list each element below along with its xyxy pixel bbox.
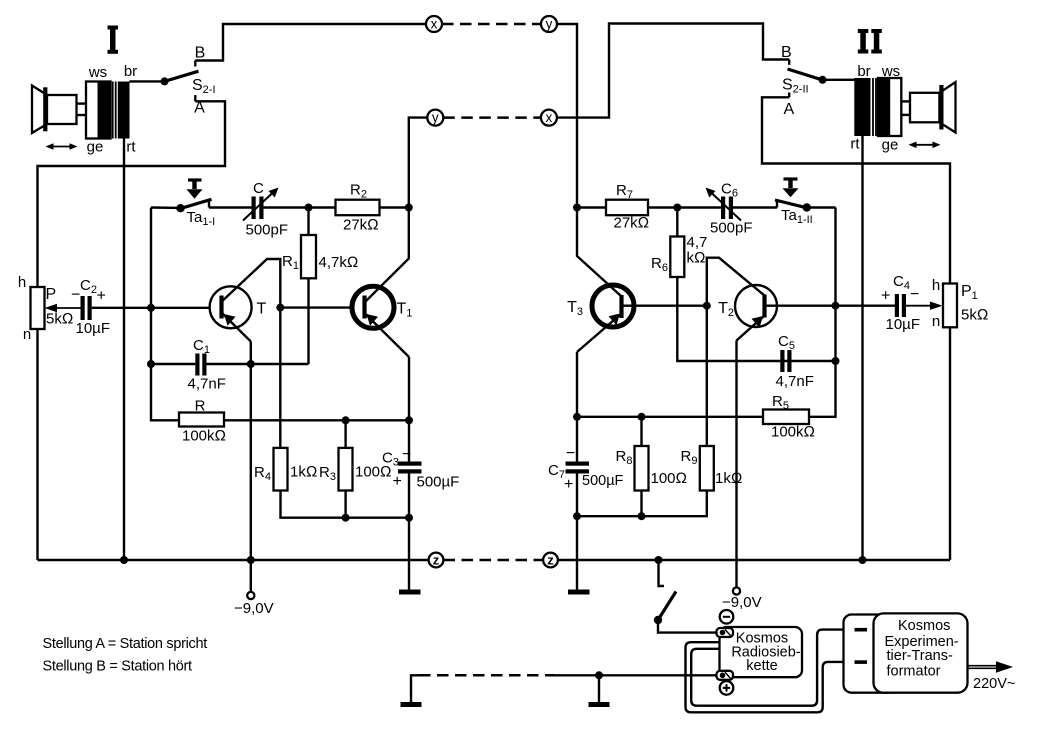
svg-text:220V~: 220V~ — [973, 676, 1015, 692]
svg-text:−: − — [402, 446, 411, 463]
svg-text:4,7nF: 4,7nF — [188, 376, 226, 393]
svg-text:br: br — [124, 63, 137, 80]
svg-text:rt: rt — [850, 136, 860, 153]
svg-text:500pF: 500pF — [246, 222, 289, 239]
svg-text:10µF: 10µF — [76, 320, 111, 337]
svg-text:n: n — [932, 313, 940, 330]
svg-text:1kΩ: 1kΩ — [290, 464, 317, 481]
svg-text:27kΩ: 27kΩ — [343, 217, 379, 234]
svg-text:Stellung B = Station hört: Stellung B = Station hört — [43, 659, 193, 675]
svg-text:n: n — [23, 326, 31, 343]
svg-text:27kΩ: 27kΩ — [614, 215, 650, 232]
svg-text:formator: formator — [887, 664, 941, 680]
svg-text:−: − — [566, 445, 575, 462]
svg-text:4,7: 4,7 — [687, 234, 708, 251]
svg-text:R: R — [195, 398, 206, 415]
svg-text:+: + — [393, 473, 402, 490]
svg-text:y: y — [546, 17, 553, 32]
svg-text:T: T — [257, 301, 267, 318]
svg-text:4,7nF: 4,7nF — [776, 373, 814, 390]
svg-text:z: z — [433, 553, 440, 568]
svg-text:−: − — [910, 286, 919, 303]
svg-text:ws: ws — [88, 64, 107, 81]
svg-text:C: C — [253, 180, 264, 197]
svg-text:+: + — [564, 476, 573, 493]
svg-text:100kΩ: 100kΩ — [182, 428, 226, 445]
svg-text:−9,0V: −9,0V — [722, 594, 762, 611]
svg-text:Kosmos: Kosmos — [898, 618, 950, 634]
svg-text:B: B — [195, 45, 206, 62]
svg-text:B: B — [781, 44, 792, 61]
svg-text:500pF: 500pF — [710, 220, 753, 237]
svg-text:h: h — [18, 274, 26, 291]
svg-text:ge: ge — [87, 139, 104, 156]
svg-text:P: P — [46, 286, 57, 303]
svg-text:500µF: 500µF — [417, 474, 460, 491]
svg-text:+: + — [881, 288, 890, 305]
svg-text:100kΩ: 100kΩ — [771, 424, 815, 441]
svg-text:x: x — [431, 17, 438, 32]
svg-text:rt: rt — [126, 139, 136, 156]
svg-text:5kΩ: 5kΩ — [961, 307, 988, 324]
svg-text:br: br — [857, 63, 870, 80]
svg-text:y: y — [432, 110, 439, 125]
svg-text:100Ω: 100Ω — [651, 470, 688, 487]
svg-text:10µF: 10µF — [886, 316, 921, 333]
svg-text:z: z — [547, 553, 554, 568]
svg-text:Stellung A = Station spricht: Stellung A = Station spricht — [43, 636, 208, 652]
svg-text:kette: kette — [746, 658, 777, 674]
svg-text:ge: ge — [882, 137, 899, 154]
svg-text:500µF: 500µF — [582, 473, 624, 489]
svg-text:5kΩ: 5kΩ — [46, 311, 73, 328]
svg-text:A: A — [784, 101, 795, 118]
svg-text:+: + — [97, 288, 106, 305]
svg-text:h: h — [932, 277, 940, 294]
svg-text:−9,0V: −9,0V — [234, 600, 274, 617]
svg-text:4,7kΩ: 4,7kΩ — [319, 254, 359, 271]
svg-text:tier-Trans-: tier-Trans- — [887, 648, 953, 664]
svg-text:ws: ws — [881, 63, 900, 80]
svg-text:−: − — [71, 287, 80, 304]
svg-text:1kΩ: 1kΩ — [715, 470, 742, 487]
svg-text:x: x — [546, 110, 553, 125]
svg-text:kΩ: kΩ — [687, 250, 706, 267]
svg-text:A: A — [194, 100, 205, 117]
